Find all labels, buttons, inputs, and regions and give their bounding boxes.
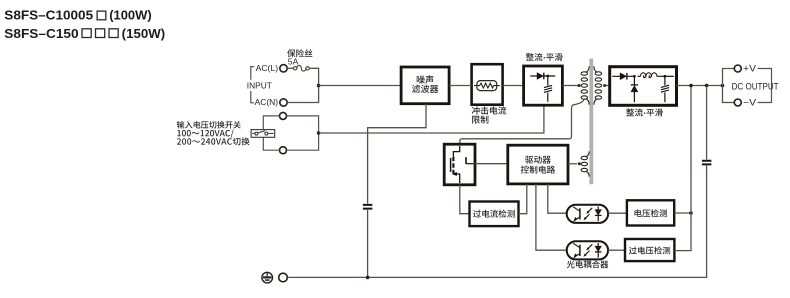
wire noise filter to inrush (449, 85, 472, 87)
node auxiliary winding entry (578, 162, 581, 165)
photocoupler PC1 (567, 205, 608, 223)
driver control circuit block (508, 145, 568, 184)
inrush label line1 (472, 106, 507, 114)
noise filter block (401, 67, 449, 104)
diode D1 (530, 73, 555, 80)
junction output node C (721, 84, 725, 88)
node rectifier 1 cap tap (546, 75, 549, 78)
wire switch node to rectifier bottom (319, 105, 544, 133)
wire inrush to rectifier 1 (503, 85, 524, 87)
wire noise filter ground lead (368, 104, 426, 204)
wire switch to selector bottom terminal (263, 138, 279, 151)
junction sense node (689, 211, 693, 215)
transformer T1 core (589, 59, 593, 185)
junction switch node (317, 131, 321, 135)
rectifier-smoothing block 1 (524, 66, 563, 105)
voltage detection block (627, 200, 674, 225)
junction output node B (705, 84, 709, 88)
capacitor C4 output to ground (702, 161, 712, 165)
fuse label baoxiansi (287, 49, 312, 57)
diode D2 output rectifier (612, 73, 633, 80)
INPUT bracket lower (251, 91, 254, 103)
junction input node (317, 84, 321, 88)
AC(N) terminal circle (280, 99, 287, 106)
transformer secondary winding (594, 66, 602, 105)
svg-text:(150W): (150W) (122, 26, 166, 41)
wire driver to photocoupler 1 (548, 184, 567, 213)
AC(L) terminal circle (280, 65, 287, 72)
node secondary winding exit (603, 84, 606, 87)
wire photocoupler 2 to overvoltage detect (608, 249, 625, 251)
photocoupler PC2 (567, 241, 608, 259)
frame ground symbol (262, 272, 273, 283)
noise filter text line1 (417, 75, 434, 83)
wire AC(L) to fuse (287, 67, 293, 69)
svg-text:5A: 5A (288, 56, 299, 66)
svg-text:+V: +V (743, 64, 756, 74)
noise filter text line2 (412, 85, 439, 93)
wire photocoupler 1 to voltage detect (608, 212, 627, 214)
wire selector terminals to switch node (287, 116, 319, 150)
svg-text:AC(L): AC(L) (256, 63, 279, 73)
wire output to capacitor C4 (706, 86, 708, 160)
overcurrent detection text (473, 210, 515, 218)
node primary winding entry (578, 84, 581, 87)
selector top terminal circle (280, 112, 287, 119)
wire voltage detect to sense node (674, 212, 691, 214)
-V terminal circle (734, 99, 741, 106)
rectifier 2 label (626, 108, 663, 116)
title line 2 square 1 (82, 29, 91, 38)
wire primary bottom to switching transistor (460, 100, 584, 145)
wire driver to photocoupler 2 (536, 184, 567, 250)
wire AC(N) to input node (287, 86, 318, 102)
svg-text:(100W): (100W) (109, 8, 152, 23)
svg-text:INPUT: INPUT (247, 80, 273, 90)
junction ground rail node (366, 276, 370, 280)
wire fuse to input node (309, 68, 318, 85)
wire capacitor C4 to ground rail (287, 166, 706, 278)
wire transistor source to overcurrent detect (460, 185, 470, 214)
wire selector top terminal to switch (263, 116, 279, 129)
photocoupler label (567, 260, 609, 268)
transformer auxiliary winding (581, 151, 589, 176)
selector switch S1 (251, 130, 275, 138)
wire driver to auxiliary winding (568, 163, 577, 165)
svg-text:AC(N): AC(N) (255, 97, 279, 107)
voltage detection text (635, 209, 667, 217)
wire driver to transistor gate (475, 163, 508, 165)
node output cap tap (664, 75, 667, 78)
junction output node A (689, 84, 693, 88)
title line 2 square 2 (96, 29, 105, 38)
capacitor C2 smoothing (544, 76, 552, 102)
overcurrent detection block (470, 202, 519, 227)
wire overcurrent detect to driver (519, 184, 527, 214)
fuse F1 5A (293, 66, 309, 72)
overvoltage detection block (625, 239, 674, 261)
wire rectifier 2 to DC output (677, 85, 723, 87)
transformer primary winding (581, 66, 589, 105)
node flywheel diode tap (633, 75, 636, 78)
switching transistor block Q1 (444, 144, 475, 185)
capacitor C1 to frame ground (363, 205, 373, 209)
wire DC output bracket (723, 69, 735, 103)
transistor Q1 mosfet symbol (451, 146, 474, 183)
selector label line1 (177, 121, 241, 129)
driver text line2 (521, 166, 555, 174)
svg-text:S8FS–C150: S8FS–C150 (4, 26, 78, 41)
INPUT bracket upper (251, 67, 254, 80)
svg-text:−V: −V (743, 98, 756, 108)
wire capacitor C1 to ground rail (367, 210, 369, 277)
inrush current limit block (472, 64, 503, 105)
selector label line2 (177, 130, 233, 138)
driver text line1 (525, 156, 551, 164)
inrush label line2 (472, 116, 488, 124)
selector label line3 (177, 137, 250, 145)
wire secondary to rectifier 2 (606, 85, 610, 87)
svg-text:S8FS–C10005: S8FS–C10005 (4, 8, 93, 23)
+V terminal circle (734, 65, 741, 72)
wire rectifier 1 to primary (562, 85, 577, 87)
rectifier 1 label (526, 53, 563, 61)
selector bottom terminal circle (280, 147, 287, 154)
wire input node to noise filter (319, 85, 402, 87)
title line 1 box-option square (97, 11, 106, 20)
rectifier-smoothing block 2 (610, 67, 677, 106)
ground terminal circle (279, 273, 288, 282)
wire output sense line (674, 86, 691, 251)
title line 2 square 3 (109, 29, 118, 38)
capacitor C3 output smoothing (661, 76, 674, 102)
inductor L1 output choke (638, 73, 664, 78)
DC output right bracket (758, 69, 772, 103)
thermistor R1 inrush element (474, 81, 500, 91)
overvoltage detection text (629, 246, 670, 254)
diode D3 flywheel (631, 76, 638, 102)
